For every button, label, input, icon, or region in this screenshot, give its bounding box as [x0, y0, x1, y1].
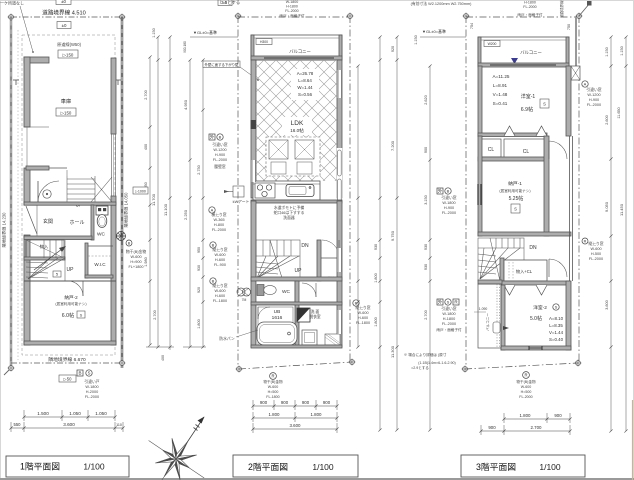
svg-text:6.9帖: 6.9帖	[521, 105, 533, 113]
svg-text:7M: 7M	[242, 298, 247, 302]
bifold door symbols top	[504, 126, 515, 136]
svg-text:洋室-1: 洋室-1	[521, 93, 536, 100]
chain line xC	[189, 60, 191, 347]
3F bottom boundary sloped	[465, 363, 578, 369]
svg-text:1.800: 1.800	[374, 317, 378, 327]
3F storeroom walls	[478, 136, 482, 236]
svg-text:蛇口46は下すする: 蛇口46は下すする	[274, 210, 305, 215]
2F LDK walls left	[251, 60, 256, 198]
3F bottom wall of storeroom	[478, 232, 571, 236]
driveway slope box	[58, 50, 78, 58]
2F UB bath	[256, 305, 295, 347]
svg-text:FL-2000: FL-2000	[519, 395, 532, 399]
1F room wall y281	[24, 280, 116, 282]
right wall slide window	[337, 148, 342, 206]
svg-text:W-1800: W-1800	[85, 385, 98, 389]
svg-text:16.0帖: 16.0帖	[290, 127, 304, 134]
window label B (wc)	[210, 278, 216, 284]
1F dimension row 1	[24, 416, 115, 418]
svg-text:kWアート: kWアート	[233, 199, 250, 204]
svg-text:腰壁窓: 腰壁窓	[214, 164, 226, 169]
svg-text:H-500: H-500	[591, 252, 601, 256]
svg-text:=2.9とする: =2.9とする	[411, 365, 429, 370]
svg-text:400: 400	[161, 355, 165, 361]
3F right boundary gray post	[575, 17, 577, 66]
svg-text:FL-2000: FL-2000	[587, 103, 601, 107]
bifold symbols down	[504, 285, 515, 295]
svg-text:CL: CL	[523, 149, 530, 155]
svg-text:L=8.35: L=8.35	[549, 323, 563, 328]
row partition wall y236	[24, 236, 92, 240]
svg-text:B: B	[128, 241, 131, 245]
svg-text:W.I.C: W.I.C	[94, 262, 106, 267]
faint edge line	[632, 400, 634, 480]
svg-text:ホール: ホール	[69, 220, 84, 226]
svg-text:R: R	[584, 239, 587, 243]
garage interior line	[24, 126, 49, 128]
svg-text:引違い窓: 引違い窓	[441, 195, 456, 200]
svg-text:S=0.56: S=0.56	[298, 92, 313, 97]
svg-text:FL-2000: FL-2000	[285, 9, 298, 13]
svg-text:1.800: 1.800	[374, 273, 378, 283]
svg-text:S: S	[80, 313, 83, 318]
svg-text:900: 900	[488, 425, 496, 430]
svg-text:横辷り窓: 横辷り窓	[211, 212, 226, 217]
svg-text:900: 900	[302, 400, 310, 405]
svg-text:WC: WC	[282, 289, 291, 295]
2F washroom wall vertical	[295, 281, 299, 347]
svg-text:雨戸・面格子付: 雨戸・面格子付	[436, 327, 462, 332]
compass star body	[155, 438, 196, 479]
svg-text:(有効寸法 W2.1200mm W2.750mm): (有効寸法 W2.1200mm W2.750mm)	[411, 1, 472, 6]
svg-text:4.950: 4.950	[183, 99, 188, 110]
svg-text:9.750: 9.750	[390, 230, 395, 241]
svg-text:11.650: 11.650	[617, 107, 621, 118]
circled R right	[582, 238, 588, 244]
2F bottom boundary sloped	[239, 362, 352, 369]
svg-text:900: 900	[281, 400, 289, 405]
T mark left	[13, 79, 19, 81]
left wall post blob	[251, 120, 257, 129]
svg-text:W-1800: W-1800	[286, 0, 299, 4]
svg-text:A=8.10: A=8.10	[549, 316, 564, 321]
svg-text:W-600: W-600	[214, 253, 225, 257]
chain x397	[396, 37, 398, 430]
svg-text:▷150: ▷150	[61, 110, 72, 115]
2F closet 収納	[317, 257, 342, 259]
svg-text:V=1.44: V=1.44	[549, 330, 564, 335]
svg-text:R: R	[524, 373, 527, 378]
svg-text:洗 面: 洗 面	[311, 309, 320, 314]
boxed B S labels	[77, 370, 83, 376]
svg-text:FL-2000: FL-2000	[85, 395, 99, 399]
1F garage left wall upper	[24, 57, 30, 127]
svg-text:1.050: 1.050	[95, 411, 107, 416]
svg-text:1.800: 1.800	[197, 319, 201, 329]
window label A lower-left	[209, 207, 215, 213]
svg-text:1.150: 1.150	[620, 46, 624, 56]
small boxed 5	[53, 271, 61, 277]
svg-text:DN: DN	[529, 245, 537, 251]
1F right site boundary line	[121, 17, 124, 368]
UB door arc	[258, 307, 270, 319]
svg-text:2階平面図: 2階平面図	[248, 462, 288, 472]
svg-text:道路境界線 4.510: 道路境界線 4.510	[42, 9, 86, 17]
W.I.C walls	[85, 243, 88, 278]
3F left site boundary	[465, 16, 467, 369]
3F wall under CL	[501, 281, 569, 285]
svg-text:2.600: 2.600	[605, 115, 609, 125]
svg-text:FL+1800: FL+1800	[128, 265, 143, 269]
svg-text:H-800: H-800	[214, 223, 224, 227]
svg-text:UP: UP	[67, 267, 75, 273]
svg-text:玄関: 玄関	[43, 218, 53, 225]
svg-text:L=8.64: L=8.64	[298, 78, 312, 83]
svg-text:▷1000: ▷1000	[135, 189, 146, 193]
chain x380	[379, 37, 381, 430]
svg-text:W-600: W-600	[214, 289, 225, 293]
boundary jog bottom-left	[4, 368, 11, 375]
svg-text:3.600: 3.600	[605, 300, 609, 310]
svg-text:H=500: H=500	[268, 390, 279, 394]
winder stair mid wall	[24, 257, 65, 260]
2F right site boundary	[349, 16, 351, 363]
svg-text:縦辷り窓: 縦辷り窓	[212, 283, 227, 288]
chain x358	[357, 66, 359, 347]
svg-text:2.700: 2.700	[424, 310, 428, 320]
svg-text:754: 754	[470, 23, 474, 29]
svg-text:水道ポモトに予備: 水道ポモトに予備	[274, 205, 305, 210]
1F survey pin bottom-right	[119, 360, 126, 367]
svg-text:1.090: 1.090	[479, 307, 488, 311]
chain line xB	[169, 37, 171, 350]
svg-text:防水パン: 防水パン	[219, 336, 235, 341]
sink	[286, 185, 314, 197]
3F wall under room1	[478, 133, 547, 137]
compass long diagonals	[149, 441, 205, 480]
1F right wall lower	[111, 196, 116, 345]
svg-text:H-2000: H-2000	[86, 390, 98, 394]
svg-text:DN: DN	[301, 243, 309, 249]
svg-text:B: B	[212, 278, 215, 283]
svg-text:11.300: 11.300	[390, 345, 395, 358]
1F winder stairs	[26, 240, 65, 281]
svg-text:W=1.44: W=1.44	[297, 85, 313, 90]
svg-text:1/100: 1/100	[539, 462, 561, 472]
svg-text:5.25帖: 5.25帖	[509, 195, 524, 202]
svg-text:±0: ±0	[62, 23, 67, 28]
3F left balcony	[478, 284, 501, 348]
3F dim row 2	[481, 430, 570, 432]
svg-text:W-365: W-365	[213, 218, 224, 222]
svg-text:B: B	[78, 371, 81, 376]
3F door arc hall	[549, 141, 567, 159]
window label right mid (2F)	[437, 188, 443, 194]
setback dotted line	[17, 30, 19, 360]
svg-text:B: B	[355, 300, 358, 305]
2F balcony handrail wall	[251, 56, 342, 60]
svg-text:2.620: 2.620	[424, 95, 428, 105]
T mark right	[115, 79, 121, 81]
svg-text:S: S	[543, 102, 546, 107]
svg-text:雨戸・面格子付: 雨戸・面格子付	[517, 12, 543, 17]
1F level box ±0	[57, 22, 71, 29]
window label A right	[582, 81, 588, 87]
2F toilet	[257, 285, 264, 296]
svg-text:W-1800: W-1800	[442, 201, 455, 205]
svg-text:H-600: H-600	[215, 294, 225, 298]
svg-text:▷150: ▷150	[63, 52, 74, 57]
svg-text:W-600: W-600	[357, 311, 368, 315]
1F survey pin bottom-left	[8, 365, 15, 372]
svg-text:S: S	[555, 304, 558, 309]
2F top boundary	[238, 16, 350, 18]
svg-text:道路境界線: 道路境界線	[559, 0, 564, 17]
1F garage door opening line	[26, 127, 28, 168]
svg-text:H-1800: H-1800	[524, 1, 536, 5]
svg-text:750: 750	[567, 24, 571, 30]
3F title box	[461, 455, 585, 477]
svg-text:930: 930	[424, 244, 428, 250]
1F survey pin top-left	[8, 14, 15, 21]
3F balcony top wall	[478, 280, 502, 284]
svg-text:920: 920	[391, 46, 395, 52]
svg-text:1.800: 1.800	[520, 413, 532, 418]
window label B (stairs)	[210, 242, 216, 248]
3F room1 right wall	[566, 66, 571, 136]
1F survey pin top-right	[119, 14, 126, 21]
washing machine pan	[302, 330, 317, 345]
1F building dashed outline	[22, 35, 115, 355]
chain end bar	[146, 346, 174, 348]
svg-text:W-1800: W-1800	[442, 312, 455, 316]
svg-text:H-1800: H-1800	[286, 5, 298, 9]
top small box	[218, 0, 232, 6]
svg-text:1.980: 1.980	[144, 257, 148, 267]
1F bottom wall	[24, 341, 116, 345]
3F room1 right window	[567, 84, 571, 105]
svg-text:引違い窓: 引違い窓	[441, 306, 456, 311]
window label trio right	[437, 299, 443, 305]
svg-text:UB: UB	[274, 309, 281, 315]
2F wall WC/UB	[251, 302, 342, 305]
2F hall wall	[251, 277, 342, 281]
svg-text:物干(B)金物: 物干(B)金物	[126, 249, 146, 254]
svg-text:950: 950	[197, 247, 201, 253]
svg-text:納戸-2: 納戸-2	[64, 294, 78, 301]
slope box 50	[59, 375, 76, 382]
svg-text:FL-1800: FL-1800	[356, 321, 370, 325]
CL2	[504, 139, 547, 159]
2F title box	[233, 455, 358, 477]
svg-text:縦辷り窓: 縦辷り窓	[588, 241, 603, 246]
svg-text:900.180: 900.180	[183, 41, 187, 53]
svg-text:W-1200: W-1200	[587, 93, 600, 97]
svg-text:S=0.41: S=0.41	[493, 101, 508, 106]
svg-text:2.700: 2.700	[144, 90, 148, 100]
star half fills	[155, 438, 196, 479]
3F balcony	[478, 37, 569, 66]
3F right site boundary	[578, 16, 580, 363]
LDK label	[282, 117, 312, 135]
svg-text:1/100: 1/100	[83, 462, 105, 472]
svg-text:洋室-2: 洋室-2	[533, 304, 547, 311]
svg-text:原道線(W50): 原道線(W50)	[57, 41, 82, 48]
svg-text:H-600: H-600	[358, 316, 368, 320]
svg-text:(居室利用可能ナシ): (居室利用可能ナシ)	[55, 301, 86, 306]
svg-text:S: S	[447, 299, 450, 304]
svg-text:11.450: 11.450	[619, 203, 624, 216]
svg-text:1.800: 1.800	[269, 412, 281, 417]
window label right of 2F	[353, 300, 359, 306]
svg-text:1.050: 1.050	[69, 411, 81, 416]
svg-text:3.150: 3.150	[424, 195, 428, 205]
1F straight stair run	[67, 176, 112, 202]
chain end bar C	[183, 346, 206, 348]
svg-text:S: S	[88, 371, 91, 376]
svg-text:110: 110	[116, 423, 122, 427]
svg-text:±0: ±0	[61, 0, 66, 4]
3F window bottom	[528, 346, 530, 350]
svg-text:一ケ所道なし: 一ケ所道なし	[0, 0, 24, 6]
3F dim row 1	[504, 418, 570, 420]
svg-text:1.800: 1.800	[311, 412, 323, 417]
svg-text:FL-1800: FL-1800	[213, 299, 227, 303]
svg-text:FL-2000: FL-2000	[213, 158, 227, 162]
svg-text:1.150: 1.150	[152, 28, 156, 38]
svg-text:FL-2000: FL-2000	[212, 228, 226, 232]
1F right wall upper	[111, 58, 116, 134]
2F right wall window low	[337, 310, 342, 334]
top cut box	[56, 0, 71, 5]
meter symbol right	[117, 232, 126, 241]
1F wall under stair row	[24, 202, 116, 205]
washroom door arc	[302, 283, 316, 297]
second pan gray	[325, 334, 340, 345]
svg-text:※ 場合により詳細は (原寸: ※ 場合により詳細は (原寸	[404, 352, 447, 357]
svg-text:1.150: 1.150	[414, 35, 418, 45]
label sagari-kabe boxed	[203, 61, 240, 68]
CL walls	[478, 157, 547, 161]
1F dimension row 2	[11, 427, 123, 429]
3F boundary jog diagonal	[579, 3, 590, 16]
svg-text:車庫: 車庫	[61, 97, 71, 105]
compass north arrow	[176, 417, 204, 459]
kitchen counter	[253, 181, 320, 200]
svg-text:930: 930	[197, 265, 201, 271]
svg-text:B: B	[447, 188, 450, 193]
right chain x611	[610, 37, 612, 431]
svg-text:納戸-1: 納戸-1	[508, 180, 522, 187]
svg-text:W-600: W-600	[130, 255, 141, 259]
svg-text:900: 900	[323, 400, 331, 405]
room1 icon	[540, 99, 549, 108]
svg-text:バルコニー: バルコニー	[486, 313, 490, 331]
svg-text:3階平面図: 3階平面図	[476, 462, 516, 472]
crossed box on boundary	[571, 66, 580, 80]
svg-text:物入+CL: 物入+CL	[516, 268, 533, 275]
svg-text:縦辷り窓: 縦辷り窓	[212, 247, 227, 252]
svg-text:外: 外	[210, 134, 215, 141]
svg-text:A=26.78: A=26.78	[297, 71, 314, 76]
chain x430	[429, 66, 431, 430]
1F bottom site boundary	[11, 362, 123, 364]
2F LDK walls right	[337, 60, 342, 198]
2F meter on boundary	[237, 288, 245, 296]
svg-text:3.600: 3.600	[290, 423, 302, 428]
window label A (left mid)	[209, 134, 215, 140]
toilet fixture 1F	[96, 206, 108, 215]
svg-text:外: 外	[438, 299, 443, 306]
svg-text:隣地境界線 14.230: 隣地境界線 14.230	[1, 212, 8, 248]
1F left site boundary line	[10, 17, 13, 368]
svg-text:▼GL±0=基準: ▼GL±0=基準	[422, 28, 446, 34]
svg-text:W-600: W-600	[590, 247, 601, 251]
svg-text:2.700: 2.700	[153, 310, 157, 320]
svg-text:物干(B)金物: 物干(B)金物	[263, 379, 283, 384]
svg-text:L=8.91: L=8.91	[493, 83, 508, 88]
svg-text:▼GL±0=基準: ▼GL±0=基準	[193, 29, 217, 35]
star internal spokes	[155, 438, 196, 479]
svg-text:920: 920	[197, 287, 201, 293]
3F room2 walls	[501, 285, 505, 350]
svg-text:2.750: 2.750	[197, 165, 201, 175]
svg-text:隣地境界線 14.050: 隣地境界線 14.050	[123, 192, 130, 228]
svg-text:▷50: ▷50	[64, 376, 73, 381]
balcony fixture	[493, 322, 500, 333]
balcony drain blue marker	[511, 58, 518, 64]
svg-text:6.0帖: 6.0帖	[62, 311, 74, 319]
svg-text:CL: CL	[488, 147, 495, 153]
svg-text:B: B	[219, 134, 222, 139]
svg-text:(1.1B(1.4m×6-1.6-2.90): (1.1B(1.4m×6-1.6-2.90)	[418, 361, 455, 365]
svg-text:900: 900	[554, 413, 562, 418]
genkan step diagonal	[26, 206, 37, 234]
garage slope box	[56, 108, 76, 116]
kW outlet symbol	[233, 186, 244, 197]
svg-text:A=11.25: A=11.25	[493, 74, 510, 79]
svg-text:FL-2000: FL-2000	[523, 5, 536, 9]
svg-text:11.700: 11.700	[151, 193, 156, 206]
2F R label + text	[270, 373, 277, 380]
W.I.C hanger dashed	[88, 255, 112, 257]
svg-text:FL-2000: FL-2000	[442, 322, 456, 326]
1F left wall lower	[24, 235, 30, 345]
2F balcony outline	[251, 35, 342, 60]
svg-text:7.200: 7.200	[390, 140, 395, 151]
svg-text:V=1.48: V=1.48	[493, 92, 508, 97]
svg-text:930: 930	[374, 244, 378, 250]
right chain x626	[625, 37, 627, 431]
1F entrance door arc	[38, 181, 59, 202]
svg-text:物入: 物入	[40, 243, 49, 250]
svg-text:5.0帖: 5.0帖	[530, 315, 542, 322]
svg-text:引違い窓: 引違い窓	[586, 87, 601, 92]
3F room1 left wall	[478, 66, 482, 136]
3F balcony handrail wall	[478, 63, 569, 67]
CL1	[481, 139, 501, 157]
svg-text:H-900: H-900	[589, 98, 599, 102]
hall/wc partition wall	[91, 205, 94, 240]
svg-text:隣地境界線 6.670: 隣地境界線 6.670	[48, 356, 86, 363]
svg-text:930: 930	[424, 264, 428, 270]
2F stairs winder	[256, 240, 300, 281]
svg-text:9.050: 9.050	[604, 201, 609, 212]
svg-text:W-1200: W-1200	[213, 148, 226, 152]
chain line xA	[157, 37, 159, 347]
svg-text:W-600: W-600	[521, 385, 532, 389]
leader from note to garage	[20, 6, 33, 52]
